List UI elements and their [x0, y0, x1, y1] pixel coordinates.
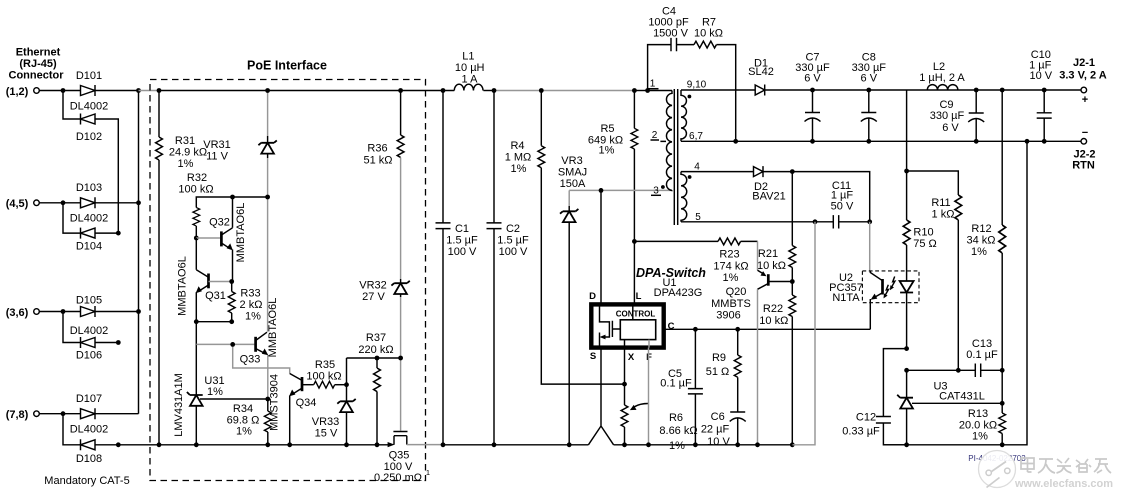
mosfet Q35 [374, 432, 443, 485]
shunt reference U31 LMV431A1M [173, 373, 225, 445]
node Q32 collector tap [230, 195, 235, 200]
svg-text:330 µF: 330 µF [930, 110, 965, 122]
node sense junction [904, 169, 909, 174]
svg-text:8.66 kΩ: 8.66 kΩ [659, 425, 697, 437]
svg-text:51 Ω: 51 Ω [706, 366, 730, 378]
svg-text:X: X [628, 352, 635, 363]
wire L1 to R4 [483, 90, 494, 92]
wire U31 cathode to R34 [200, 398, 268, 400]
transformer primary winding pins 1-2-3 [666, 91, 672, 191]
zener VR31 11V [203, 91, 277, 332]
capacitor C7 330uF 6V [795, 52, 830, 142]
svg-text:VR32: VR32 [359, 280, 387, 292]
capacitor C2 1.5uF 100V [487, 91, 529, 445]
resistor R32 100k [178, 172, 213, 238]
svg-text:R34: R34 [233, 403, 253, 415]
inductor L2 1uH 2A [919, 61, 965, 90]
node C1 bottom [441, 442, 446, 447]
transistor Q20 MMBTS3906 [711, 241, 792, 444]
node R32 bottom / Q32 base [194, 236, 199, 241]
node Q31 emitter junction [194, 319, 199, 324]
svg-text:MMBTAO6L: MMBTAO6L [267, 298, 279, 358]
svg-text:R23: R23 [719, 249, 739, 261]
node C9 bottom [974, 139, 979, 144]
node C9 top [974, 88, 979, 93]
diode D1 SL42 [748, 58, 774, 96]
svg-text:10 kΩ: 10 kΩ [759, 315, 788, 327]
svg-text:1 µH, 2 A: 1 µH, 2 A [919, 72, 965, 84]
diode D2 BAV21 [752, 166, 785, 202]
svg-text:Q31: Q31 [205, 290, 226, 302]
resistor R12 34k [966, 90, 1005, 403]
wire (3,6) row [39, 311, 138, 313]
node bus1 row2 [136, 200, 141, 205]
svg-text:1%: 1% [599, 145, 615, 157]
resistor R33 2k [228, 282, 262, 323]
svg-text:D104: D104 [76, 241, 102, 253]
svg-text:2 kΩ: 2 kΩ [240, 299, 263, 311]
svg-text:10 µH: 10 µH [455, 62, 485, 74]
svg-text:L: L [636, 291, 642, 302]
capacitor C10 1uF 10V [1029, 49, 1053, 141]
node (4,5) input terminal [6, 198, 40, 210]
svg-text:100 kΩ: 100 kΩ [178, 184, 213, 196]
node (7,8) input terminal [6, 409, 40, 421]
node C2 top [492, 88, 497, 93]
wire (1,2) to bridge [39, 90, 138, 92]
svg-text:Ethernet: Ethernet [16, 47, 61, 59]
wire D106 branch [63, 312, 118, 343]
svg-text:1%: 1% [207, 386, 223, 398]
svg-text:10 V: 10 V [1029, 70, 1052, 82]
svg-text:(1,2): (1,2) [6, 86, 29, 98]
diode D104 DL4002 [76, 228, 102, 253]
wire gate node horizontal [347, 357, 401, 359]
svg-text:100 V: 100 V [448, 246, 477, 258]
svg-text:R37: R37 [366, 332, 386, 344]
svg-text:R11: R11 [931, 197, 950, 209]
svg-text:R32: R32 [187, 172, 207, 184]
svg-text:50 V: 50 V [831, 201, 854, 213]
svg-text:R9: R9 [712, 352, 726, 364]
svg-text:R10: R10 [913, 227, 933, 239]
node junction (1,2) [61, 88, 66, 93]
svg-text:(3,6): (3,6) [6, 307, 29, 319]
svg-text:CONTROL: CONTROL [616, 310, 656, 319]
node bias polarity dot [688, 175, 692, 179]
DPA-Switch U1 outline [591, 266, 706, 348]
svg-text:1 A: 1 A [462, 74, 479, 86]
node D106 to negative bus [116, 340, 121, 345]
resistor R36 51k [363, 91, 404, 167]
node divider junction [1000, 401, 1005, 406]
wire bias pin4 line [681, 171, 754, 173]
node U3 anode bottom [904, 442, 909, 447]
svg-text:D108: D108 [76, 453, 102, 465]
resistor R35 100k [306, 359, 346, 388]
capacitor C5 0.1uF [660, 329, 703, 445]
wire U3 ref to divider [912, 402, 1002, 404]
node R23 at L pin [632, 239, 637, 244]
svg-text:10 kΩ: 10 kΩ [757, 260, 786, 272]
svg-text:VR3: VR3 [561, 155, 582, 167]
wire source rail left of Q35 [159, 444, 388, 446]
svg-text:1%: 1% [669, 440, 685, 452]
svg-text:1%: 1% [972, 431, 988, 443]
wire top rail inside PoE box [159, 90, 426, 92]
svg-text:1.5 µF: 1.5 µF [497, 235, 529, 247]
svg-text:100 V: 100 V [499, 246, 528, 258]
svg-text:DL4002: DL4002 [70, 424, 109, 436]
svg-text:1500 V: 1500 V [653, 28, 689, 40]
node bus1 row1 [136, 88, 141, 93]
svg-text:D105: D105 [76, 295, 102, 307]
resistor R9 51 [706, 329, 741, 412]
capacitor C12 0.33uF [842, 412, 891, 438]
svg-text:DL4002: DL4002 [70, 101, 109, 113]
zener VR3 SMAJ150A [558, 155, 587, 445]
svg-text:10 kΩ: 10 kΩ [694, 28, 723, 40]
svg-text:R21: R21 [758, 248, 778, 260]
resistor R21 10k [757, 246, 796, 296]
svg-text:C: C [668, 321, 675, 332]
node J2-2 return terminal [1072, 127, 1095, 172]
node clamp tap pin1 [645, 88, 650, 93]
svg-text:24.9 kΩ: 24.9 kΩ [169, 147, 207, 159]
resistor R6 8.66k with select arrow [621, 384, 698, 452]
transistor Q33 MMBTAO6L [240, 298, 279, 399]
svg-text:D101: D101 [76, 70, 102, 82]
wire Vout sense tap [906, 90, 908, 171]
diode D105 DL4002 [70, 295, 109, 338]
svg-text:L1: L1 [462, 51, 474, 63]
capacitor C1 1.5uF 100V [436, 91, 478, 445]
svg-text:CAT431L: CAT431L [939, 391, 985, 403]
svg-text:6,7: 6,7 [689, 131, 703, 142]
node Q31 base / R33 top [229, 279, 234, 284]
svg-text:C6: C6 [711, 411, 725, 423]
svg-text:Q33: Q33 [240, 354, 261, 366]
optocoupler U2 PC357N1TA dashed box [829, 271, 919, 304]
wire Q32 base [196, 237, 220, 239]
wire 9,10 output line [681, 89, 755, 91]
node R12 top [1000, 88, 1005, 93]
wire output rail to J2-1 [765, 89, 1083, 91]
node bus1 row3 [136, 309, 141, 314]
wire C12 branch [883, 349, 906, 445]
svg-text:1%: 1% [245, 311, 261, 323]
svg-text:D106: D106 [76, 350, 102, 362]
svg-text:1: 1 [650, 79, 656, 90]
node R4 top [539, 88, 544, 93]
svg-text:DPA423G: DPA423G [654, 287, 703, 299]
svg-text:(7,8): (7,8) [6, 409, 29, 421]
resistor R7 10k [694, 17, 723, 49]
svg-text:100 kΩ: 100 kΩ [306, 371, 341, 383]
svg-text:SL42: SL42 [748, 66, 774, 78]
node R31 bottom on source rail [157, 442, 162, 447]
wire (7,8) row [39, 413, 138, 415]
node C13 to R12 R13 [1000, 368, 1005, 373]
node Q20 base junction [790, 279, 795, 284]
svg-text:Q35: Q35 [389, 450, 410, 462]
node R37 top [375, 356, 380, 361]
node R31 top [157, 88, 162, 93]
node VR3 anode on rail [567, 442, 572, 447]
node C6 bottom [735, 442, 740, 447]
node R36 top rail [398, 88, 403, 93]
svg-text:D102: D102 [76, 131, 102, 143]
node junction (4,5) [61, 200, 66, 205]
svg-text:1%: 1% [971, 246, 987, 258]
node R13 bottom [1000, 442, 1005, 447]
svg-text:1: 1 [426, 468, 430, 477]
svg-text:Mandatory CAT-5: Mandatory CAT-5 [44, 475, 129, 487]
svg-text:VR33: VR33 [312, 416, 340, 428]
resistor R11 1k [931, 195, 961, 370]
inductor L1 10uH 1A [454, 51, 484, 91]
resistor R5 649k [588, 91, 638, 304]
transformer secondary winding 9,10-6,7 [681, 90, 686, 141]
svg-text:Q32: Q32 [209, 217, 230, 229]
svg-text:MMBTAO6L: MMBTAO6L [235, 203, 247, 263]
svg-text:6 V: 6 V [861, 73, 878, 85]
wire source rail right of peak [614, 444, 793, 446]
pin 3 label [651, 186, 661, 197]
wire D104 branch [63, 203, 118, 233]
svg-text:R5: R5 [600, 123, 614, 135]
node C5 top [693, 327, 698, 332]
svg-text:MMST3904: MMST3904 [269, 374, 281, 431]
svg-text:R22: R22 [763, 303, 783, 315]
svg-text:15 V: 15 V [315, 428, 338, 440]
wire source rail mid [443, 444, 588, 446]
svg-text:C2: C2 [506, 223, 520, 235]
wire C pin line [665, 328, 871, 330]
resistor R34 69.8 [227, 374, 281, 445]
svg-text:0.1 µF: 0.1 µF [660, 378, 692, 390]
node LED to C12 junction [904, 346, 909, 351]
svg-text:174 kΩ: 174 kΩ [713, 261, 748, 273]
node C7 bottom [810, 139, 815, 144]
diode D106 DL4002 [76, 337, 102, 362]
capacitor C4 1000pF 1500V [648, 6, 689, 52]
svg-text:1 MΩ: 1 MΩ [505, 152, 532, 164]
node R22 bottom [790, 442, 795, 447]
svg-text:J2-1: J2-1 [1073, 57, 1095, 69]
resistor R23 174k [634, 238, 757, 284]
wire C13 line [907, 369, 1003, 371]
wire F pin to source rail [648, 348, 650, 445]
node VR33 anode on rail [344, 442, 349, 447]
node drain tap on pin3 line [599, 188, 604, 193]
node U31 anode on source rail [194, 442, 199, 447]
node Q34 emitter on rail [287, 442, 292, 447]
svg-text:R36: R36 [367, 143, 387, 155]
node C10 top [1042, 88, 1047, 93]
PoE Interface dashed box [150, 59, 426, 481]
svg-text:150A: 150A [560, 178, 586, 190]
svg-text:1.5 µF: 1.5 µF [446, 235, 478, 247]
node R11 bottom [956, 368, 961, 373]
wire D102 branch [63, 91, 118, 234]
diode D101 DL4002 [70, 70, 109, 113]
node junction (7,8) [61, 411, 66, 416]
node R9 top [735, 327, 740, 332]
zener VR32 27V [359, 279, 410, 431]
wire R32 top node [196, 197, 267, 208]
wire (4,5) row [39, 202, 138, 204]
wire pin3 line gray [569, 189, 672, 191]
wire bias to opto collector [869, 222, 871, 271]
opto LED [884, 245, 914, 349]
resistor R10 75 [903, 171, 937, 250]
transistor Q32 MMBTAO6L [209, 197, 247, 282]
svg-text:Q20: Q20 [726, 286, 747, 298]
svg-text:R12: R12 [971, 223, 991, 235]
wire R33 bottom to Q31 emitter [196, 321, 231, 323]
svg-text:VR31: VR31 [203, 139, 231, 151]
svg-text:+: + [1082, 94, 1088, 106]
node primary polarity dot [661, 185, 665, 189]
diode D103 DL4002 [70, 182, 109, 225]
opto phototransistor [870, 271, 882, 329]
svg-text:DL4002: DL4002 [70, 213, 109, 225]
svg-text:1 kΩ: 1 kΩ [932, 209, 955, 221]
node C10 bottom [1042, 139, 1047, 144]
node secondary polarity dot [688, 95, 692, 99]
node J2-1 output terminal [1059, 57, 1107, 106]
svg-text:22 µF: 22 µF [701, 424, 730, 436]
svg-text:MMBTS: MMBTS [711, 298, 751, 310]
capacitor C9 330uF 6V [930, 90, 984, 141]
wire 6,7 return rail [681, 140, 1083, 142]
node feedback return tap [1025, 139, 1030, 144]
svg-text:DL4002: DL4002 [70, 325, 109, 337]
wire Q31 emitter down to U31 [195, 322, 197, 395]
pin 1 label [648, 79, 659, 90]
node R6 bottom [622, 442, 627, 447]
svg-text:1%: 1% [511, 163, 527, 175]
svg-text:N1TA: N1TA [832, 292, 860, 304]
resistor R4 1M [505, 91, 625, 385]
svg-text:MMBTAO6L: MMBTAO6L [177, 256, 189, 316]
node R33 bottom [229, 319, 234, 324]
wire Q33 base net [196, 344, 289, 373]
svg-text:1%: 1% [178, 158, 194, 170]
diode D108 DL4002 [76, 439, 102, 465]
svg-text:0.33 µF: 0.33 µF [842, 426, 880, 438]
node (1,2) input terminal [6, 86, 40, 98]
transformer bias winding 4-5 [681, 172, 687, 222]
svg-text:R6: R6 [669, 412, 683, 424]
wire R21 R22 divider [791, 172, 793, 246]
node VR31 line tap [265, 195, 270, 200]
wire D108 branch / start of source rail [63, 414, 159, 445]
wire D2 cathode to bias node [763, 172, 870, 222]
wire sense to R11 [907, 171, 959, 195]
svg-text:(4,5): (4,5) [6, 198, 29, 210]
capacitor C8 330uF 6V [852, 52, 887, 142]
resistor R37 220k [358, 332, 393, 445]
transistor Q34 MMST3904 [289, 374, 316, 445]
wire rail gray segment to R5 [495, 90, 635, 92]
wire feedback bottom rail [883, 141, 1027, 445]
pin 2 stub [651, 130, 667, 141]
transistor Q31 MMBTAO6L [177, 238, 232, 322]
capacitor C11 1uF 50V [831, 180, 854, 229]
node R5 top [632, 88, 637, 93]
diode D107 DL4002 [70, 393, 109, 436]
node R35 / VR33 junction [344, 382, 349, 387]
svg-text:D: D [589, 291, 596, 302]
node Q33 base tap [230, 342, 235, 347]
node (3,6) input terminal [6, 307, 40, 319]
svg-text:Connector: Connector [9, 70, 65, 82]
U1 internal mosfet and control block [600, 304, 656, 348]
node C5 bottom [693, 442, 698, 447]
transformer T1 core [674, 89, 677, 225]
node R37 bottom on rail [375, 442, 380, 447]
svg-text:1%: 1% [723, 272, 739, 284]
svg-text:C12: C12 [856, 412, 876, 424]
svg-text:6 V: 6 V [942, 122, 959, 134]
svg-text:(RJ-45): (RJ-45) [19, 58, 57, 70]
node R34 bottom [265, 442, 270, 447]
svg-text:Q34: Q34 [296, 397, 317, 409]
svg-text:LMV431A1M: LMV431A1M [173, 373, 185, 437]
node clamp to 6,7 rail [733, 139, 738, 144]
node gate node [398, 356, 403, 361]
svg-text:C1: C1 [455, 223, 469, 235]
resistor R13 20k [959, 403, 1006, 445]
svg-text:RTN: RTN [1072, 160, 1095, 172]
svg-text:51 kΩ: 51 kΩ [363, 155, 392, 167]
node U3 cathode net [904, 368, 909, 373]
node R34 top [265, 397, 270, 402]
node bias C11 node [867, 219, 872, 224]
svg-text:220 kΩ: 220 kΩ [358, 344, 393, 356]
watermark elecfans [979, 451, 1114, 491]
shunt reference U3 CAT431L [897, 370, 985, 445]
svg-text:3.3 V, 2 A: 3.3 V, 2 A [1059, 70, 1107, 82]
node C8 bottom [866, 139, 871, 144]
svg-text:www.elecfans.com: www.elecfans.com [1014, 478, 1113, 490]
svg-text:R35: R35 [315, 359, 335, 371]
svg-text:R13: R13 [968, 408, 988, 420]
resistor R22 10k [759, 295, 795, 445]
wire top rail gray segment into PoE box [139, 90, 160, 92]
svg-text:6 V: 6 V [804, 73, 821, 85]
label Ethernet (RJ-45) Connector [9, 47, 65, 82]
svg-text:75 Ω: 75 Ω [913, 238, 937, 250]
diode D102 DL4002 [76, 114, 102, 144]
node junction (3,6) [61, 309, 66, 314]
node C8 top [866, 88, 871, 93]
wire top rail PoE box to L1 [426, 90, 455, 92]
svg-text:BAV21: BAV21 [752, 191, 785, 203]
svg-text:10 V: 10 V [707, 436, 730, 448]
wire drain D to U1 [600, 190, 602, 303]
svg-text:4: 4 [694, 162, 700, 173]
svg-text:SMAJ: SMAJ [558, 167, 587, 179]
node D2 divider tap [790, 169, 795, 174]
svg-text:27 V: 27 V [362, 291, 385, 303]
svg-text:0.1 µF: 0.1 µF [966, 349, 998, 361]
svg-text:0.250 mΩ: 0.250 mΩ [374, 472, 422, 484]
capacitor C6 22uF 10V [701, 411, 746, 448]
svg-text:−: − [1082, 127, 1088, 139]
